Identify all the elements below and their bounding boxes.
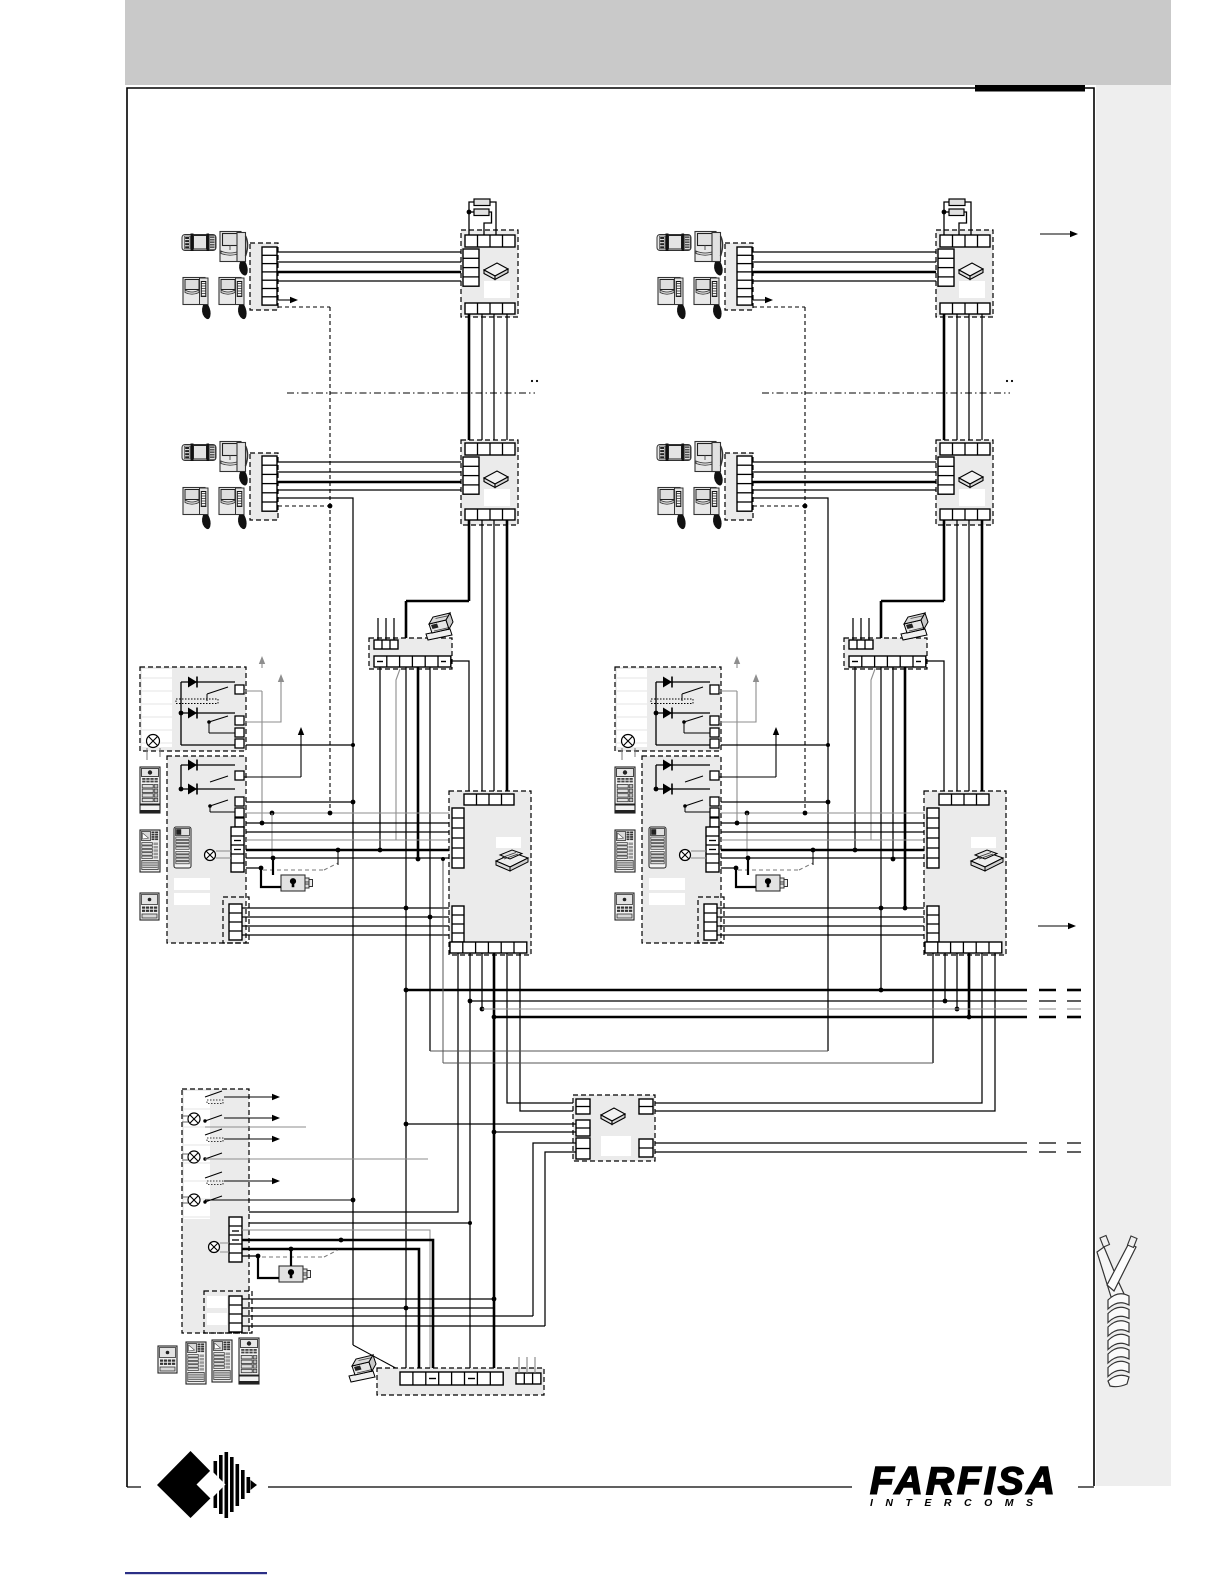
gray output arrow bbox=[244, 690, 262, 692]
footer rule bbox=[127, 1486, 141, 1488]
riser from PSU-R (thick) bbox=[968, 953, 971, 1017]
junction bbox=[378, 848, 383, 853]
electric lock bbox=[279, 1266, 311, 1282]
wire bbox=[246, 744, 353, 746]
wire bbox=[752, 471, 938, 473]
wire bbox=[181, 744, 235, 746]
riser bbox=[892, 667, 894, 859]
right half bbox=[0, 0, 1, 1]
lamp bbox=[205, 850, 216, 861]
junction bbox=[256, 1254, 261, 1259]
digital encoder ECR bbox=[844, 638, 927, 669]
wire bbox=[243, 1222, 470, 1224]
bus wire gray bbox=[246, 839, 452, 841]
diode bbox=[181, 764, 235, 766]
left half bbox=[0, 0, 1, 1]
gray return wire bbox=[871, 669, 875, 840]
wire to riser bbox=[752, 498, 828, 1051]
riser bbox=[956, 520, 958, 794]
wire bbox=[854, 667, 856, 850]
lamp bbox=[209, 1242, 220, 1253]
encoder stub wires bbox=[377, 618, 379, 640]
relay contact bbox=[205, 1172, 222, 1178]
bus break marks bbox=[1039, 989, 1056, 992]
riser from PSU-L bbox=[520, 953, 576, 1111]
wire bbox=[277, 489, 463, 491]
junction bbox=[803, 811, 808, 816]
wire bbox=[242, 916, 452, 918]
diode bbox=[181, 788, 235, 790]
junction bbox=[179, 787, 184, 792]
feeder (thick) bbox=[242, 1249, 419, 1372]
trunk elbow (thick) bbox=[881, 600, 944, 603]
junction bbox=[468, 1221, 472, 1225]
gray output arrow bbox=[719, 690, 737, 692]
riser (thick) bbox=[943, 314, 946, 443]
ACI Farfisa logo diamond bbox=[157, 1451, 224, 1518]
coupling dotted box bbox=[176, 699, 218, 704]
diode bbox=[656, 764, 710, 766]
floor separator dash-dot line right bbox=[762, 392, 1010, 394]
wire to riser bbox=[205, 1199, 353, 1201]
feeder (thick) bbox=[242, 1240, 433, 1372]
page frame bbox=[127, 88, 1094, 1487]
short wire bbox=[721, 867, 736, 869]
relay unit RL1R bbox=[615, 667, 721, 751]
junction bbox=[734, 866, 739, 871]
junction bbox=[735, 821, 740, 826]
entrance panel icon bbox=[615, 893, 634, 920]
riser to trunk corner bbox=[429, 667, 431, 1051]
relay contact bbox=[205, 1153, 222, 1159]
wire bbox=[379, 667, 381, 850]
resistor wiring bbox=[944, 202, 949, 235]
relay contact bbox=[205, 1196, 222, 1202]
wire bbox=[277, 251, 463, 253]
relay contact bbox=[207, 687, 228, 694]
riser bbox=[481, 314, 483, 443]
intercom phone A3L bbox=[183, 278, 211, 320]
bus wire bbox=[721, 857, 927, 859]
gray wire bbox=[205, 1158, 428, 1160]
bus wire bbox=[246, 822, 452, 824]
junction bbox=[654, 711, 659, 716]
riser jog bbox=[353, 1345, 403, 1372]
riser from PSU-L (thick) bbox=[493, 953, 496, 1017]
power supply PSUL bbox=[449, 791, 531, 955]
main power unit PSU-M bbox=[182, 1089, 249, 1333]
junction bbox=[746, 856, 751, 861]
riser bbox=[968, 314, 970, 443]
arrow output bbox=[224, 1138, 274, 1140]
link wire bbox=[430, 1050, 828, 1052]
arrow output bbox=[224, 1096, 274, 1098]
relay contact bbox=[682, 687, 703, 694]
wire bbox=[752, 280, 938, 282]
wire bbox=[752, 489, 938, 491]
terminal block bbox=[706, 827, 719, 872]
intercom phone B4L bbox=[219, 488, 247, 530]
link riser bbox=[442, 859, 444, 1063]
entrance panel icon bbox=[174, 827, 191, 868]
junction bbox=[853, 848, 858, 853]
riser (thick) bbox=[417, 667, 420, 859]
entrance panel icon bbox=[212, 1340, 232, 1382]
entrance panel icon bbox=[186, 1342, 206, 1384]
wire bbox=[242, 1298, 494, 1300]
junction bbox=[654, 787, 659, 792]
junction bbox=[351, 800, 356, 805]
encoder feed wire bbox=[927, 661, 944, 794]
junction bbox=[480, 1007, 485, 1012]
arrow to external call bbox=[753, 299, 767, 301]
relay unit RL2L bbox=[167, 756, 246, 943]
riser (thick) to trunk bbox=[943, 520, 946, 601]
door contact dashed bbox=[262, 1256, 324, 1258]
junction bbox=[336, 848, 341, 853]
electric lock bbox=[281, 875, 313, 891]
wire (thick) bbox=[752, 481, 938, 484]
lamp output bbox=[147, 735, 160, 748]
entrance panel icon bbox=[158, 1346, 177, 1373]
relay contact bbox=[210, 800, 228, 806]
terminal bbox=[235, 728, 244, 737]
arrow output bbox=[244, 776, 301, 778]
relay contact bbox=[205, 1129, 222, 1135]
terminal strip TS1R bbox=[725, 243, 753, 310]
junction bbox=[492, 1130, 497, 1135]
wire bbox=[242, 907, 452, 909]
entrance panel icon bbox=[239, 1338, 259, 1384]
relay contact bbox=[205, 1115, 222, 1121]
relay contact bbox=[685, 800, 703, 806]
main bus wire gray bbox=[482, 1008, 1027, 1010]
terminal strip TS1L bbox=[250, 243, 278, 310]
riser from PSU-R bbox=[944, 953, 946, 1001]
riser (thick) bbox=[468, 314, 471, 443]
entrance panel icon bbox=[140, 830, 160, 872]
riser from PSU-R bbox=[655, 953, 995, 1111]
feed wire bbox=[655, 682, 657, 745]
diode bbox=[656, 788, 710, 790]
lamp bbox=[680, 850, 691, 861]
page header bar bbox=[125, 0, 1171, 85]
riser bbox=[956, 314, 958, 443]
terminal bbox=[710, 716, 719, 725]
videointercom monitor B1R bbox=[657, 444, 691, 462]
junction bbox=[826, 743, 830, 747]
wire bbox=[533, 1143, 576, 1316]
wire bbox=[277, 280, 463, 282]
bus break marks bbox=[1039, 1151, 1056, 1153]
riser bbox=[506, 314, 508, 443]
arrow output bbox=[224, 1117, 274, 1119]
junction bbox=[351, 743, 355, 747]
bus break marks bbox=[1039, 1000, 1056, 1002]
bus wire gray bbox=[721, 812, 927, 814]
terminal bbox=[235, 716, 244, 725]
bus wire out bbox=[655, 1142, 1027, 1144]
terminal strip TS2L bbox=[250, 453, 278, 520]
junction bbox=[826, 800, 831, 805]
feed wire bbox=[180, 765, 182, 789]
dashed branch wire bbox=[753, 505, 805, 507]
wire bbox=[717, 925, 927, 927]
bus wire bbox=[721, 822, 927, 824]
junction bbox=[811, 848, 816, 853]
videophone A2R bbox=[695, 232, 723, 276]
continuation arrow bbox=[1040, 233, 1072, 235]
wire bbox=[721, 744, 828, 746]
relay contact bbox=[685, 776, 703, 782]
terminal block bbox=[229, 1217, 242, 1262]
lamp output bbox=[622, 735, 635, 748]
relay terminal block RL3L bbox=[223, 897, 249, 943]
ACI logo stripes bbox=[214, 1452, 258, 1518]
riser from PSU-L bbox=[507, 953, 576, 1103]
bus wire (thick) bbox=[721, 849, 927, 852]
floor distributor D2R bbox=[936, 440, 993, 525]
terminating resistor R1L bbox=[474, 199, 490, 206]
wire bbox=[242, 1255, 258, 1257]
lock wiring (thick) bbox=[258, 1256, 279, 1278]
junction bbox=[441, 857, 445, 861]
junction bbox=[891, 857, 896, 862]
intercom phone A4L bbox=[219, 278, 247, 320]
main bus wire bbox=[470, 1000, 1027, 1002]
junction bbox=[903, 906, 908, 911]
wire bbox=[684, 732, 710, 734]
terminal bbox=[235, 808, 244, 817]
riser from PSU-L bbox=[469, 953, 471, 1372]
relay contact bbox=[210, 776, 228, 782]
gray output arrow bbox=[244, 682, 281, 722]
junction bbox=[351, 1198, 356, 1203]
intercom phone B3L bbox=[183, 488, 211, 530]
terminal bbox=[235, 797, 244, 806]
lamp bbox=[188, 1113, 200, 1125]
floor separator dash-dot line left bbox=[287, 392, 535, 394]
dashed branch wire bbox=[278, 306, 330, 308]
bus wire bbox=[721, 831, 927, 833]
wire bbox=[277, 471, 463, 473]
wire bbox=[752, 251, 938, 253]
wire bbox=[752, 261, 938, 263]
lock wiring (thick) bbox=[261, 868, 281, 887]
junction bbox=[270, 811, 275, 816]
bus wire gray bbox=[246, 812, 452, 814]
dashed branch wire bbox=[278, 505, 330, 507]
main bus wire (thick) bbox=[494, 1016, 1027, 1019]
relay terminal block RL3R bbox=[698, 897, 724, 943]
bus wire bbox=[721, 801, 828, 803]
wire bbox=[406, 1123, 576, 1125]
terminal bbox=[710, 797, 719, 806]
junction bbox=[492, 1015, 497, 1020]
trunk elbow (thick) bbox=[406, 600, 469, 603]
floor distributor D1R bbox=[936, 230, 993, 317]
terminating resistor R2R bbox=[949, 209, 964, 216]
wire (thick) bbox=[277, 271, 463, 274]
intercom phone B4R bbox=[694, 488, 722, 530]
wire (thick) bbox=[752, 271, 938, 274]
gray return wire bbox=[396, 669, 400, 840]
junction bbox=[271, 856, 276, 861]
terminal bbox=[235, 739, 244, 748]
wire bbox=[717, 916, 927, 918]
main bus wire (thick) bbox=[406, 989, 1027, 992]
terminal bbox=[235, 771, 244, 780]
junction bbox=[428, 915, 433, 920]
relay contact bbox=[684, 716, 703, 722]
junction on dashed riser bbox=[328, 504, 333, 509]
footer accent line bbox=[125, 1572, 267, 1574]
short wire bbox=[246, 867, 261, 869]
terminal bbox=[710, 818, 719, 827]
bus wire bbox=[246, 831, 452, 833]
floor distributor D1L bbox=[461, 230, 518, 317]
digital encoder EC-M bbox=[377, 1368, 544, 1395]
feed wire bbox=[655, 765, 657, 789]
terminal block bbox=[231, 827, 244, 872]
wire bbox=[752, 461, 938, 463]
wire bbox=[277, 461, 463, 463]
junction bbox=[492, 1297, 497, 1302]
wire bbox=[717, 934, 927, 936]
relay unit RL2R bbox=[642, 756, 721, 943]
wire bbox=[242, 1315, 533, 1317]
junction bbox=[404, 1122, 409, 1127]
riser (thick) bbox=[506, 520, 509, 794]
right sidebar bbox=[1096, 85, 1171, 1486]
wire bbox=[277, 261, 463, 263]
dashed riser bbox=[329, 307, 331, 813]
relay contact bbox=[209, 716, 228, 722]
bus break marks bbox=[1039, 1142, 1056, 1144]
riser (thick) to trunk bbox=[468, 520, 471, 601]
riser bbox=[405, 667, 407, 1372]
wire bbox=[494, 1131, 576, 1133]
terminal bbox=[710, 771, 719, 780]
black tab top right bbox=[975, 85, 1085, 92]
wire bbox=[209, 732, 235, 734]
bus wire bbox=[246, 801, 353, 803]
door contact dashed bbox=[263, 869, 324, 871]
gray stub bbox=[205, 1126, 306, 1128]
wire bbox=[717, 907, 927, 909]
riser from PSU-R bbox=[956, 953, 958, 1009]
videophone A2L bbox=[220, 232, 248, 276]
terminal bbox=[235, 818, 244, 827]
bus wire (thick) bbox=[246, 849, 452, 852]
riser bbox=[880, 667, 882, 990]
lock wiring (thick) bbox=[736, 868, 756, 887]
dashed branch wire bbox=[753, 306, 805, 308]
junction bbox=[416, 857, 421, 862]
diode bbox=[656, 712, 710, 714]
arrow output bbox=[719, 776, 776, 778]
wire bbox=[656, 744, 710, 746]
relay unit RL1L bbox=[140, 667, 246, 751]
riser continuation (thick) bbox=[493, 1017, 496, 1372]
continuation dots right bbox=[1006, 380, 1008, 382]
terminating resistor R1R bbox=[949, 199, 965, 206]
svg-text:INTERCOMS: INTERCOMS bbox=[870, 1497, 1046, 1509]
bus wire out bbox=[655, 1151, 1027, 1153]
ACI logo notch bbox=[197, 1470, 226, 1499]
bus break marks gray bbox=[1039, 1008, 1056, 1010]
wire bbox=[242, 1307, 494, 1309]
terminal bbox=[710, 808, 719, 817]
videointercom monitor A1R bbox=[657, 234, 691, 252]
relay contact bbox=[205, 1091, 222, 1097]
terminal bbox=[710, 739, 719, 748]
continuation arrow bbox=[1038, 925, 1070, 927]
door contact dashed bbox=[738, 869, 799, 871]
wire bbox=[242, 934, 452, 936]
terminal bbox=[710, 728, 719, 737]
twisted pair cable icon bbox=[1097, 1236, 1137, 1387]
diode bbox=[656, 681, 710, 683]
wire bbox=[545, 1152, 576, 1326]
bus wire gray bbox=[721, 839, 927, 841]
terminal bbox=[710, 685, 719, 694]
entrance panel icon bbox=[649, 827, 666, 868]
riser from PSU-L bbox=[249, 953, 458, 1212]
bus wire bbox=[246, 857, 452, 859]
junction bbox=[879, 906, 884, 911]
intercom phone A3R bbox=[658, 278, 686, 320]
junction bbox=[943, 999, 948, 1004]
link wire bbox=[443, 1062, 933, 1064]
junction bbox=[289, 1247, 294, 1252]
riser (thick) bbox=[904, 667, 907, 908]
riser bbox=[968, 520, 970, 794]
arrow to external call bbox=[278, 299, 292, 301]
junction bbox=[260, 821, 265, 826]
junction bbox=[468, 999, 473, 1004]
riser from PSU-R bbox=[655, 953, 982, 1103]
feed wire bbox=[180, 682, 182, 745]
coupling dotted box bbox=[651, 699, 693, 704]
digital encoder ECL bbox=[369, 638, 452, 669]
diode bbox=[181, 681, 235, 683]
riser from PSU-L bbox=[481, 953, 483, 1009]
terminating resistor R2L bbox=[474, 209, 489, 216]
junction bbox=[179, 711, 184, 716]
entrance panel icon bbox=[615, 830, 635, 872]
gray output arrow bbox=[719, 682, 756, 722]
main distributor DM bbox=[573, 1095, 655, 1161]
junction on dashed riser bbox=[803, 504, 808, 509]
continuation dots left bbox=[531, 380, 533, 382]
intercom phone A4R bbox=[694, 278, 722, 320]
arrow output bbox=[224, 1180, 274, 1182]
wire to riser bbox=[277, 498, 353, 1345]
electric lock bbox=[756, 875, 788, 891]
wire bbox=[242, 925, 452, 927]
encoder stub wires bbox=[518, 1357, 520, 1373]
wire bbox=[242, 1325, 545, 1327]
junction bbox=[942, 210, 947, 215]
videointercom monitor B1L bbox=[182, 444, 216, 462]
riser (thick) bbox=[981, 520, 984, 794]
lamp bbox=[188, 1151, 200, 1163]
junction bbox=[404, 906, 409, 911]
entrance panel icon bbox=[140, 893, 159, 920]
riser bbox=[981, 314, 983, 443]
entrance panel icon bbox=[140, 767, 160, 813]
